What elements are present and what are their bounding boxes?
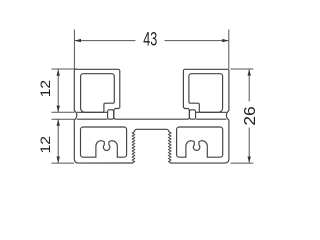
dimension 26 line top segment — [248, 69, 250, 101]
dimension 43 extension line right — [228, 30, 230, 70]
svg-text:12: 12 — [37, 136, 53, 154]
left panel slit top line — [77, 111, 108, 113]
arrowhead 43 left — [75, 39, 81, 42]
dimension 26 extension line bottom — [231, 162, 254, 164]
dimension 43 extension line left — [73, 30, 75, 70]
dimension 12 top tick upper — [52, 68, 78, 70]
profile outer outline — [74, 69, 229, 163]
arrowhead 43 right — [222, 39, 228, 42]
left junction hole — [108, 110, 114, 119]
dimension 43 line left segment — [75, 40, 136, 42]
dimension 12 bottom tick lower — [52, 162, 75, 164]
arrowhead 12 top down — [57, 106, 60, 112]
dimension 12 bottom tick upper — [52, 118, 75, 120]
arrowhead 12 bottom down — [57, 157, 60, 163]
right junction hole — [190, 110, 196, 119]
top-right chamber cavity — [189, 74, 223, 113]
right panel slit bottom line — [196, 118, 227, 120]
dimension 26 line bottom segment — [248, 128, 250, 163]
arrowhead 26 up — [248, 69, 251, 75]
bottom-right chamber cavity with screw boss — [177, 127, 223, 157]
dimension 12 bottom line — [57, 120, 59, 163]
arrowhead 26 down — [248, 157, 251, 163]
svg-text:26: 26 — [242, 106, 259, 126]
arrowhead 12 bottom up — [57, 119, 60, 125]
dimension 12 top line — [57, 69, 59, 112]
bottom-left chamber cavity with screw boss — [81, 127, 127, 157]
right panel slit top line — [196, 111, 227, 113]
top-left chamber cavity — [81, 74, 115, 113]
dimension 26 extension line top — [231, 68, 254, 70]
arrowhead 12 top up — [57, 69, 60, 75]
dimension 43 line right segment — [165, 40, 229, 42]
svg-text:12: 12 — [37, 80, 53, 98]
svg-text:43: 43 — [143, 29, 157, 50]
dimension 12 top tick lower — [52, 111, 75, 113]
left panel slit bottom line — [77, 118, 108, 120]
